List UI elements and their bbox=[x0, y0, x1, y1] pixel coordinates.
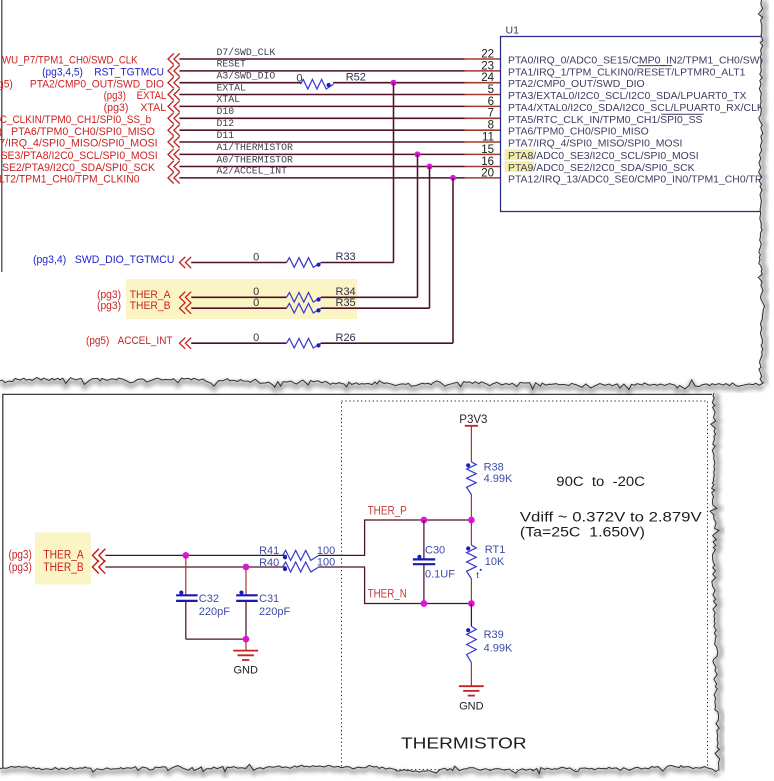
svg-text:(pg3): (pg3) bbox=[9, 550, 32, 562]
wire R35 row left segment bbox=[191, 307, 286, 309]
svg-text:R35: R35 bbox=[336, 297, 356, 309]
svg-text:20: 20 bbox=[481, 167, 494, 179]
svg-text:0: 0 bbox=[253, 251, 259, 263]
wire THER_P rail to RT1 bbox=[470, 520, 472, 545]
pin 16 of U1 bbox=[465, 166, 501, 168]
svg-text:A1/THERMISTOR: A1/THERMISTOR bbox=[217, 142, 294, 153]
capacitor C31 bbox=[245, 567, 247, 595]
torn paper right edge of top snip (white cover) bbox=[758, 0, 774, 384]
wire R26 row left segment bbox=[191, 342, 286, 344]
wire row 5 bbox=[179, 94, 464, 96]
wire P3V3 to R38 bbox=[470, 426, 472, 462]
wire R35 row right segment bbox=[321, 307, 430, 309]
svg-text:R38: R38 bbox=[484, 461, 504, 473]
svg-text:U1: U1 bbox=[506, 25, 520, 37]
svg-text:PTA3/EXTAL0/I2C0_SCL/I2C0_SDA/: PTA3/EXTAL0/I2C0_SCL/I2C0_SDA/LPUART0_TX bbox=[508, 91, 746, 102]
wire R34 row right segment bbox=[321, 296, 418, 298]
active-low overbar over RESET bbox=[638, 65, 673, 67]
resistor R38 bbox=[467, 462, 477, 495]
svg-text:R41: R41 bbox=[259, 545, 279, 557]
svg-text:R40: R40 bbox=[259, 557, 279, 569]
torn paper bottom edge of bottom snip bbox=[0, 764, 719, 781]
wire THER_A into divider (up to THER_P rail) bbox=[319, 520, 472, 555]
svg-text:PTA5/RTC_CLK_IN/TPM0_CH1/SPI0_: PTA5/RTC_CLK_IN/TPM0_CH1/SPI0_SS bbox=[508, 115, 703, 126]
svg-text:PTA0/IRQ_0/ADC0_SE15/CMP0_IN2/: PTA0/IRQ_0/ADC0_SE15/CMP0_IN2/TPM1_CH0/S… bbox=[508, 56, 768, 67]
svg-text:24: 24 bbox=[481, 72, 494, 84]
resistor R34 bbox=[287, 293, 322, 303]
wire SWD_DIO vertical drop bbox=[393, 83, 395, 263]
off-page connector chevron row 20 bbox=[168, 172, 174, 183]
bottom snip window border bbox=[3, 394, 712, 769]
wire row 6 bbox=[179, 105, 464, 107]
resistor R40 bbox=[283, 562, 319, 572]
pin 6 of U1 bbox=[465, 105, 501, 107]
svg-text:16: 16 bbox=[481, 156, 494, 168]
R33 pin dot bbox=[316, 263, 320, 267]
pin 24 of U1 bbox=[465, 82, 501, 84]
pin 23 of U1 bbox=[465, 70, 501, 72]
off-page connector chevron R34 row bbox=[180, 292, 186, 303]
wire THER_A horizontal bbox=[105, 554, 286, 556]
highlight PTA8 pin name bbox=[505, 149, 535, 160]
wire RT1 to THER_N rail bbox=[470, 579, 472, 604]
resistor R26 bbox=[287, 338, 322, 348]
resistor R41 bbox=[283, 550, 319, 560]
junction on A1/THERMISTOR net bbox=[415, 151, 421, 157]
svg-text:11: 11 bbox=[482, 131, 494, 143]
off-page connector chevron row 23 bbox=[168, 65, 174, 76]
wire row 22 bbox=[179, 58, 464, 60]
wire C31 to gnd bus bbox=[245, 601, 247, 639]
junction on A2/ACCEL_INT net bbox=[450, 175, 456, 181]
wire THER_B horizontal bbox=[105, 566, 286, 568]
wire R39 to ground bbox=[470, 663, 472, 687]
wire R34 row left segment bbox=[191, 296, 286, 298]
R26 pin dot bbox=[316, 343, 320, 347]
svg-text:C32: C32 bbox=[199, 593, 219, 605]
svg-text:) PTA6/TPM0_CH0/SPI0_MISO: ) PTA6/TPM0_CH0/SPI0_MISO bbox=[0, 126, 155, 138]
pin 22 of U1 bbox=[465, 58, 501, 60]
wire THER_B vertical drop bbox=[429, 167, 431, 309]
svg-text:THERMISTOR: THERMISTOR bbox=[401, 736, 527, 753]
svg-text:4.99K: 4.99K bbox=[484, 643, 513, 655]
svg-text:R52: R52 bbox=[346, 72, 366, 84]
pin 11 of U1 bbox=[465, 141, 501, 143]
capacitor C30 bbox=[423, 520, 425, 559]
wire R33 row right segment bbox=[321, 262, 394, 264]
wire row 8 bbox=[179, 129, 464, 131]
off-page connector chevron row 8 bbox=[168, 125, 174, 136]
svg-text:GND: GND bbox=[233, 665, 258, 677]
wire THER_B into divider (down to THER_N rail) bbox=[319, 567, 472, 604]
svg-text:D12: D12 bbox=[217, 118, 235, 129]
svg-text:THER_N: THER_N bbox=[368, 589, 407, 601]
wire to GND symbol bbox=[245, 639, 247, 651]
svg-text:6: 6 bbox=[488, 96, 494, 108]
wire C30 to THER_N rail bbox=[423, 564, 425, 603]
off-page connector chevron row 7 bbox=[168, 113, 174, 124]
active-low overbar over SPI0_SS bbox=[661, 113, 703, 115]
svg-text:(pg3): (pg3) bbox=[9, 562, 32, 574]
svg-text:8: 8 bbox=[488, 120, 494, 132]
wire THER_A vertical drop bbox=[417, 154, 419, 297]
svg-text:P3V3: P3V3 bbox=[459, 414, 487, 426]
U1 body box bbox=[501, 37, 774, 212]
wire C32 to gnd bus bbox=[185, 601, 187, 639]
svg-text:(pg3) THER_B: (pg3) THER_B bbox=[97, 300, 171, 312]
svg-text:(pg3) EXTAL: (pg3) EXTAL bbox=[104, 90, 167, 102]
svg-text:THER_B: THER_B bbox=[43, 562, 84, 574]
off-page connector chevron row 6 bbox=[168, 101, 174, 112]
off-page connector chevron R33 row bbox=[180, 257, 186, 268]
highlight block around THER_A/THER_B nets bbox=[126, 279, 357, 319]
svg-text:WU_P7/TPM1_CH0/SWD_CLK: WU_P7/TPM1_CH0/SWD_CLK bbox=[2, 55, 138, 67]
svg-text:PTA8/ADC0_SE3/I2C0_SCL/SPI0_MO: PTA8/ADC0_SE3/I2C0_SCL/SPI0_MOSI bbox=[508, 151, 699, 162]
off-page chevron THER_A bbox=[93, 549, 99, 562]
svg-text:A3/SWD_DIO: A3/SWD_DIO bbox=[217, 71, 276, 82]
R52 pin dot bbox=[327, 83, 331, 87]
svg-text:90C to -20C: 90C to -20C bbox=[556, 474, 645, 489]
svg-text:R33: R33 bbox=[336, 251, 356, 263]
junction on A3/SWD_DIO net bbox=[391, 80, 397, 86]
svg-text:0.1UF: 0.1UF bbox=[425, 569, 455, 581]
resistor R52 bbox=[301, 79, 334, 89]
ground symbol (R39) bbox=[459, 685, 484, 687]
svg-text:PTA1/IRQ_1/TPM_CLKIN0/RESET/LP: PTA1/IRQ_1/TPM_CLKIN0/RESET/LPTMR0_ALT1 bbox=[508, 67, 746, 78]
capacitor C32 bbox=[185, 555, 187, 595]
pin 5 of U1 bbox=[465, 94, 501, 96]
junction THER_B / C31 bbox=[243, 564, 250, 571]
svg-text:PTA6/TPM0_CH0/SPI0_MISO: PTA6/TPM0_CH0/SPI0_MISO bbox=[508, 127, 649, 138]
svg-text:0: 0 bbox=[253, 297, 259, 309]
svg-text:0: 0 bbox=[296, 73, 302, 85]
junction THER_N rail / C30 bbox=[421, 600, 428, 607]
svg-text:(Ta=25C 1.650V): (Ta=25C 1.650V) bbox=[520, 524, 645, 539]
svg-text:D10: D10 bbox=[217, 106, 235, 117]
svg-text:10K: 10K bbox=[485, 556, 505, 568]
svg-text:0: 0 bbox=[253, 332, 259, 344]
svg-text:PTA2/CMP0_OUT/SWD_DIO: PTA2/CMP0_OUT/SWD_DIO bbox=[508, 79, 645, 90]
wire R26 row right segment bbox=[321, 342, 453, 344]
pin 8 of U1 bbox=[465, 129, 501, 131]
svg-text:THER_P: THER_P bbox=[368, 506, 407, 518]
svg-text:RESET: RESET bbox=[217, 59, 247, 70]
svg-text:Vdiff ~ 0.372V to 2.879V: Vdiff ~ 0.372V to 2.879V bbox=[520, 509, 702, 524]
wire R33 row left segment bbox=[191, 262, 286, 264]
torn paper right edge of bottom snip (white cover) bbox=[710, 393, 774, 772]
wire row 24 bbox=[179, 82, 301, 84]
svg-text:PTA9/ADC0_SE2/I2C0_SDA/SPI0_SC: PTA9/ADC0_SE2/I2C0_SDA/SPI0_SCK bbox=[508, 163, 695, 174]
wire THER_N rail to R39 bbox=[470, 604, 472, 627]
resistor R33 bbox=[287, 258, 322, 268]
svg-text:LT2/TPM1_CH0/TPM_CLKIN0: LT2/TPM1_CH0/TPM_CLKIN0 bbox=[0, 174, 140, 186]
off-page connector chevron row 5 bbox=[168, 89, 174, 100]
resistor R39 bbox=[467, 626, 477, 662]
svg-text:C31: C31 bbox=[259, 593, 279, 605]
highlight block around THER_A/THER_B labels (bottom) bbox=[35, 533, 91, 585]
off-page connector chevron row 22 bbox=[168, 53, 174, 64]
off-page connector chevron R26 row bbox=[180, 338, 186, 349]
wire row 11 bbox=[179, 141, 464, 143]
wire R38 to THER_P rail bbox=[470, 495, 472, 521]
off-page connector chevron row 24 bbox=[168, 77, 174, 88]
thermistor RT1 bbox=[467, 545, 477, 579]
svg-text:220pF: 220pF bbox=[259, 606, 290, 618]
svg-text:A2/ACCEL_INT: A2/ACCEL_INT bbox=[217, 166, 288, 177]
wire row 20 bbox=[179, 177, 464, 179]
svg-text:15: 15 bbox=[481, 144, 494, 156]
off-page connector chevron R35 row bbox=[180, 303, 186, 314]
svg-text:(pg3) XTAL: (pg3) XTAL bbox=[104, 102, 167, 114]
svg-text:PTA7/IRQ_4/SPI0_MISO/SPI0_MOSI: PTA7/IRQ_4/SPI0_MISO/SPI0_MOSI bbox=[508, 139, 682, 150]
wire row 23 bbox=[179, 70, 464, 72]
R35 pin dot bbox=[316, 308, 320, 312]
wire row 7 bbox=[179, 117, 464, 119]
svg-text:t: t bbox=[476, 570, 479, 581]
svg-text:SE2/PTA9/I2C0_SDA/SPI0_SCK: SE2/PTA9/I2C0_SDA/SPI0_SCK bbox=[2, 162, 156, 174]
THERMISTOR block dashed box bbox=[342, 401, 708, 770]
svg-text:THER_A: THER_A bbox=[43, 550, 84, 562]
svg-text:D11: D11 bbox=[217, 130, 235, 141]
svg-text:C_CLKIN/TPM0_CH1/SPI0_SS_b: C_CLKIN/TPM0_CH1/SPI0_SS_b bbox=[0, 114, 151, 126]
sheet border left edge (top snip) bbox=[1, 0, 3, 272]
off-page chevron THER_B bbox=[93, 560, 99, 573]
svg-text:R39: R39 bbox=[484, 629, 504, 641]
pin 20 of U1 bbox=[465, 177, 501, 179]
wire row 16 bbox=[179, 166, 464, 168]
svg-text:220pF: 220pF bbox=[199, 606, 230, 618]
wire ACCEL_INT vertical drop bbox=[452, 178, 454, 343]
highlight PTA9 pin name bbox=[505, 161, 535, 172]
svg-text:A0/THERMISTOR: A0/THERMISTOR bbox=[217, 154, 294, 165]
junction gnd bus bbox=[243, 636, 250, 643]
svg-text:(pg5) ACCEL_INT: (pg5) ACCEL_INT bbox=[86, 335, 173, 347]
svg-text:22: 22 bbox=[481, 48, 494, 60]
resistor R35 bbox=[287, 303, 322, 313]
svg-text:XTAL: XTAL bbox=[217, 94, 241, 105]
svg-text:RT1: RT1 bbox=[485, 544, 506, 556]
wire row 15 bbox=[179, 153, 464, 155]
svg-text:4.99K: 4.99K bbox=[484, 473, 513, 485]
junction THER_A / C32 bbox=[182, 552, 189, 559]
off-page connector chevron row 16 bbox=[168, 161, 174, 172]
gnd bus wire bbox=[186, 638, 246, 640]
svg-text:(pg3,4,5) RST_TGTMCU: (pg3,4,5) RST_TGTMCU bbox=[42, 67, 164, 79]
svg-text:EXTAL: EXTAL bbox=[217, 82, 247, 93]
svg-text:D7/SWD_CLK: D7/SWD_CLK bbox=[217, 47, 276, 58]
pin 15 of U1 bbox=[465, 153, 501, 155]
junction on A0/THERMISTOR net bbox=[427, 164, 433, 170]
svg-text:PTA12/IRQ_13/ADC0_SE0/CMP0_IN0: PTA12/IRQ_13/ADC0_SE0/CMP0_IN0/TPM1_CH0/… bbox=[508, 174, 762, 185]
junction THER_P rail / C30 bbox=[421, 517, 428, 524]
svg-text:23: 23 bbox=[481, 60, 494, 72]
svg-text:g5) PTA2/CMP0_OUT/SWD_DIO: g5) PTA2/CMP0_OUT/SWD_DIO bbox=[0, 78, 164, 90]
svg-text:R26: R26 bbox=[336, 332, 356, 344]
svg-text:5: 5 bbox=[488, 84, 494, 96]
off-page connector chevron row 11 bbox=[168, 136, 174, 147]
ground symbol (C31/C32) bbox=[233, 650, 258, 652]
junction THER_P rail / R38 bbox=[468, 517, 475, 524]
svg-text:GND: GND bbox=[459, 700, 484, 712]
svg-text:SE3/PTA8/I2C0_SCL/SPI0_MOSI: SE3/PTA8/I2C0_SCL/SPI0_MOSI bbox=[1, 150, 158, 162]
junction THER_N rail / RT1 bbox=[468, 600, 475, 607]
torn paper bottom edge of top snip bbox=[0, 378, 765, 392]
svg-text:C30: C30 bbox=[425, 544, 445, 556]
R34 pin dot bbox=[316, 297, 320, 301]
svg-text:PTA4/XTAL0/I2C0_SDA/I2C0_SCL/L: PTA4/XTAL0/I2C0_SDA/I2C0_SCL/LPUART0_RX/… bbox=[508, 103, 764, 114]
svg-text:(pg3,4) SWD_DIO_TGTMCU: (pg3,4) SWD_DIO_TGTMCU bbox=[33, 254, 174, 266]
off-page connector chevron row 15 bbox=[168, 149, 174, 160]
pin 7 of U1 bbox=[465, 117, 501, 119]
svg-text:7/IRQ_4/SPI0_MISO/SPI0_MOSI: 7/IRQ_4/SPI0_MISO/SPI0_MOSI bbox=[0, 138, 158, 150]
svg-text:7: 7 bbox=[488, 108, 494, 120]
